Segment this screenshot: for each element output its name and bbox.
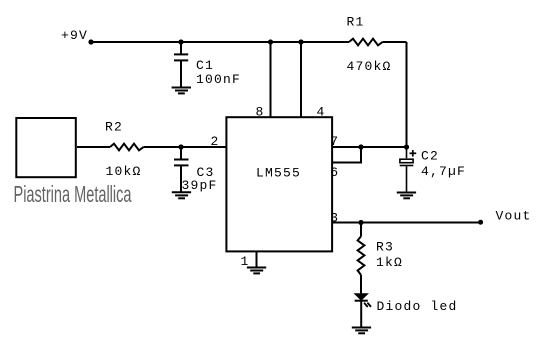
svg-text:10kΩ: 10kΩ [106, 164, 142, 179]
svg-text:R3: R3 [376, 240, 394, 255]
ground LED [352, 328, 371, 334]
wire LED to ground [360, 301, 362, 328]
svg-text:100nF: 100nF [196, 72, 241, 87]
resistor R1 [349, 39, 383, 46]
wire pin 3 to Vout [332, 222, 482, 224]
wire R1 right to corner [383, 41, 407, 43]
svg-text:Diodo led: Diodo led [377, 299, 458, 314]
wire pin 6 jumper [332, 147, 362, 163]
junction pin8 rail [268, 39, 273, 44]
wire R2 to pin 2 [144, 146, 227, 148]
svg-text:2: 2 [211, 134, 220, 149]
junction C1 top [178, 39, 183, 44]
wire R3 to LED [360, 275, 362, 294]
wire pin 7 to C2 [332, 146, 407, 148]
svg-text:39pF: 39pF [182, 178, 218, 193]
wire pin 1 to ground [256, 252, 258, 268]
sensor plate box [16, 118, 76, 177]
svg-text:C1: C1 [196, 58, 214, 73]
svg-text:R1: R1 [347, 15, 365, 30]
capacitor C3 [174, 147, 189, 192]
svg-text:Piastrina Metallica: Piastrina Metallica [14, 181, 133, 207]
node Vout terminal [478, 220, 483, 225]
diode LED cathode bar [355, 300, 368, 302]
svg-text:LM555: LM555 [256, 166, 301, 181]
wire pin 8 to rail [270, 42, 272, 117]
junction pin7 node [358, 144, 363, 149]
junction C3 top [178, 144, 183, 149]
svg-text:4,7µF: 4,7µF [421, 164, 466, 179]
wire +9V rail top horizontal [91, 41, 349, 43]
junction C2 node [404, 144, 409, 149]
node +9V terminal junction [88, 39, 93, 44]
svg-text:1kΩ: 1kΩ [376, 255, 403, 270]
op-amp/timer U1 LM555 body [226, 117, 332, 251]
ground C2 [397, 193, 416, 199]
ground C3 [172, 192, 191, 198]
svg-text:C2: C2 [421, 149, 439, 164]
ground pin 1 [247, 268, 266, 274]
svg-text:+9V: +9V [61, 28, 88, 43]
diode LED D1 triangle [355, 294, 368, 300]
wire pin3 down to R3 [360, 223, 362, 237]
resistor R2 [110, 144, 144, 151]
junction pin4 rail [298, 39, 303, 44]
wire R1 corner down to pin7 net [406, 42, 408, 147]
ground C1 [172, 88, 191, 94]
capacitor C2 plus sign [410, 150, 417, 157]
wire pin 4 to rail [300, 42, 302, 117]
junction R3 top [358, 220, 363, 225]
capacitor C2 [400, 148, 414, 192]
resistor R3 [358, 236, 365, 275]
svg-text:R2: R2 [105, 120, 123, 135]
svg-text:Vout: Vout [496, 209, 532, 224]
diode LED emission arrows [365, 303, 371, 306]
svg-text:470kΩ: 470kΩ [347, 59, 392, 74]
wire box to R2 [77, 146, 110, 148]
capacitor C1 [174, 42, 188, 87]
svg-text:6: 6 [330, 165, 339, 180]
